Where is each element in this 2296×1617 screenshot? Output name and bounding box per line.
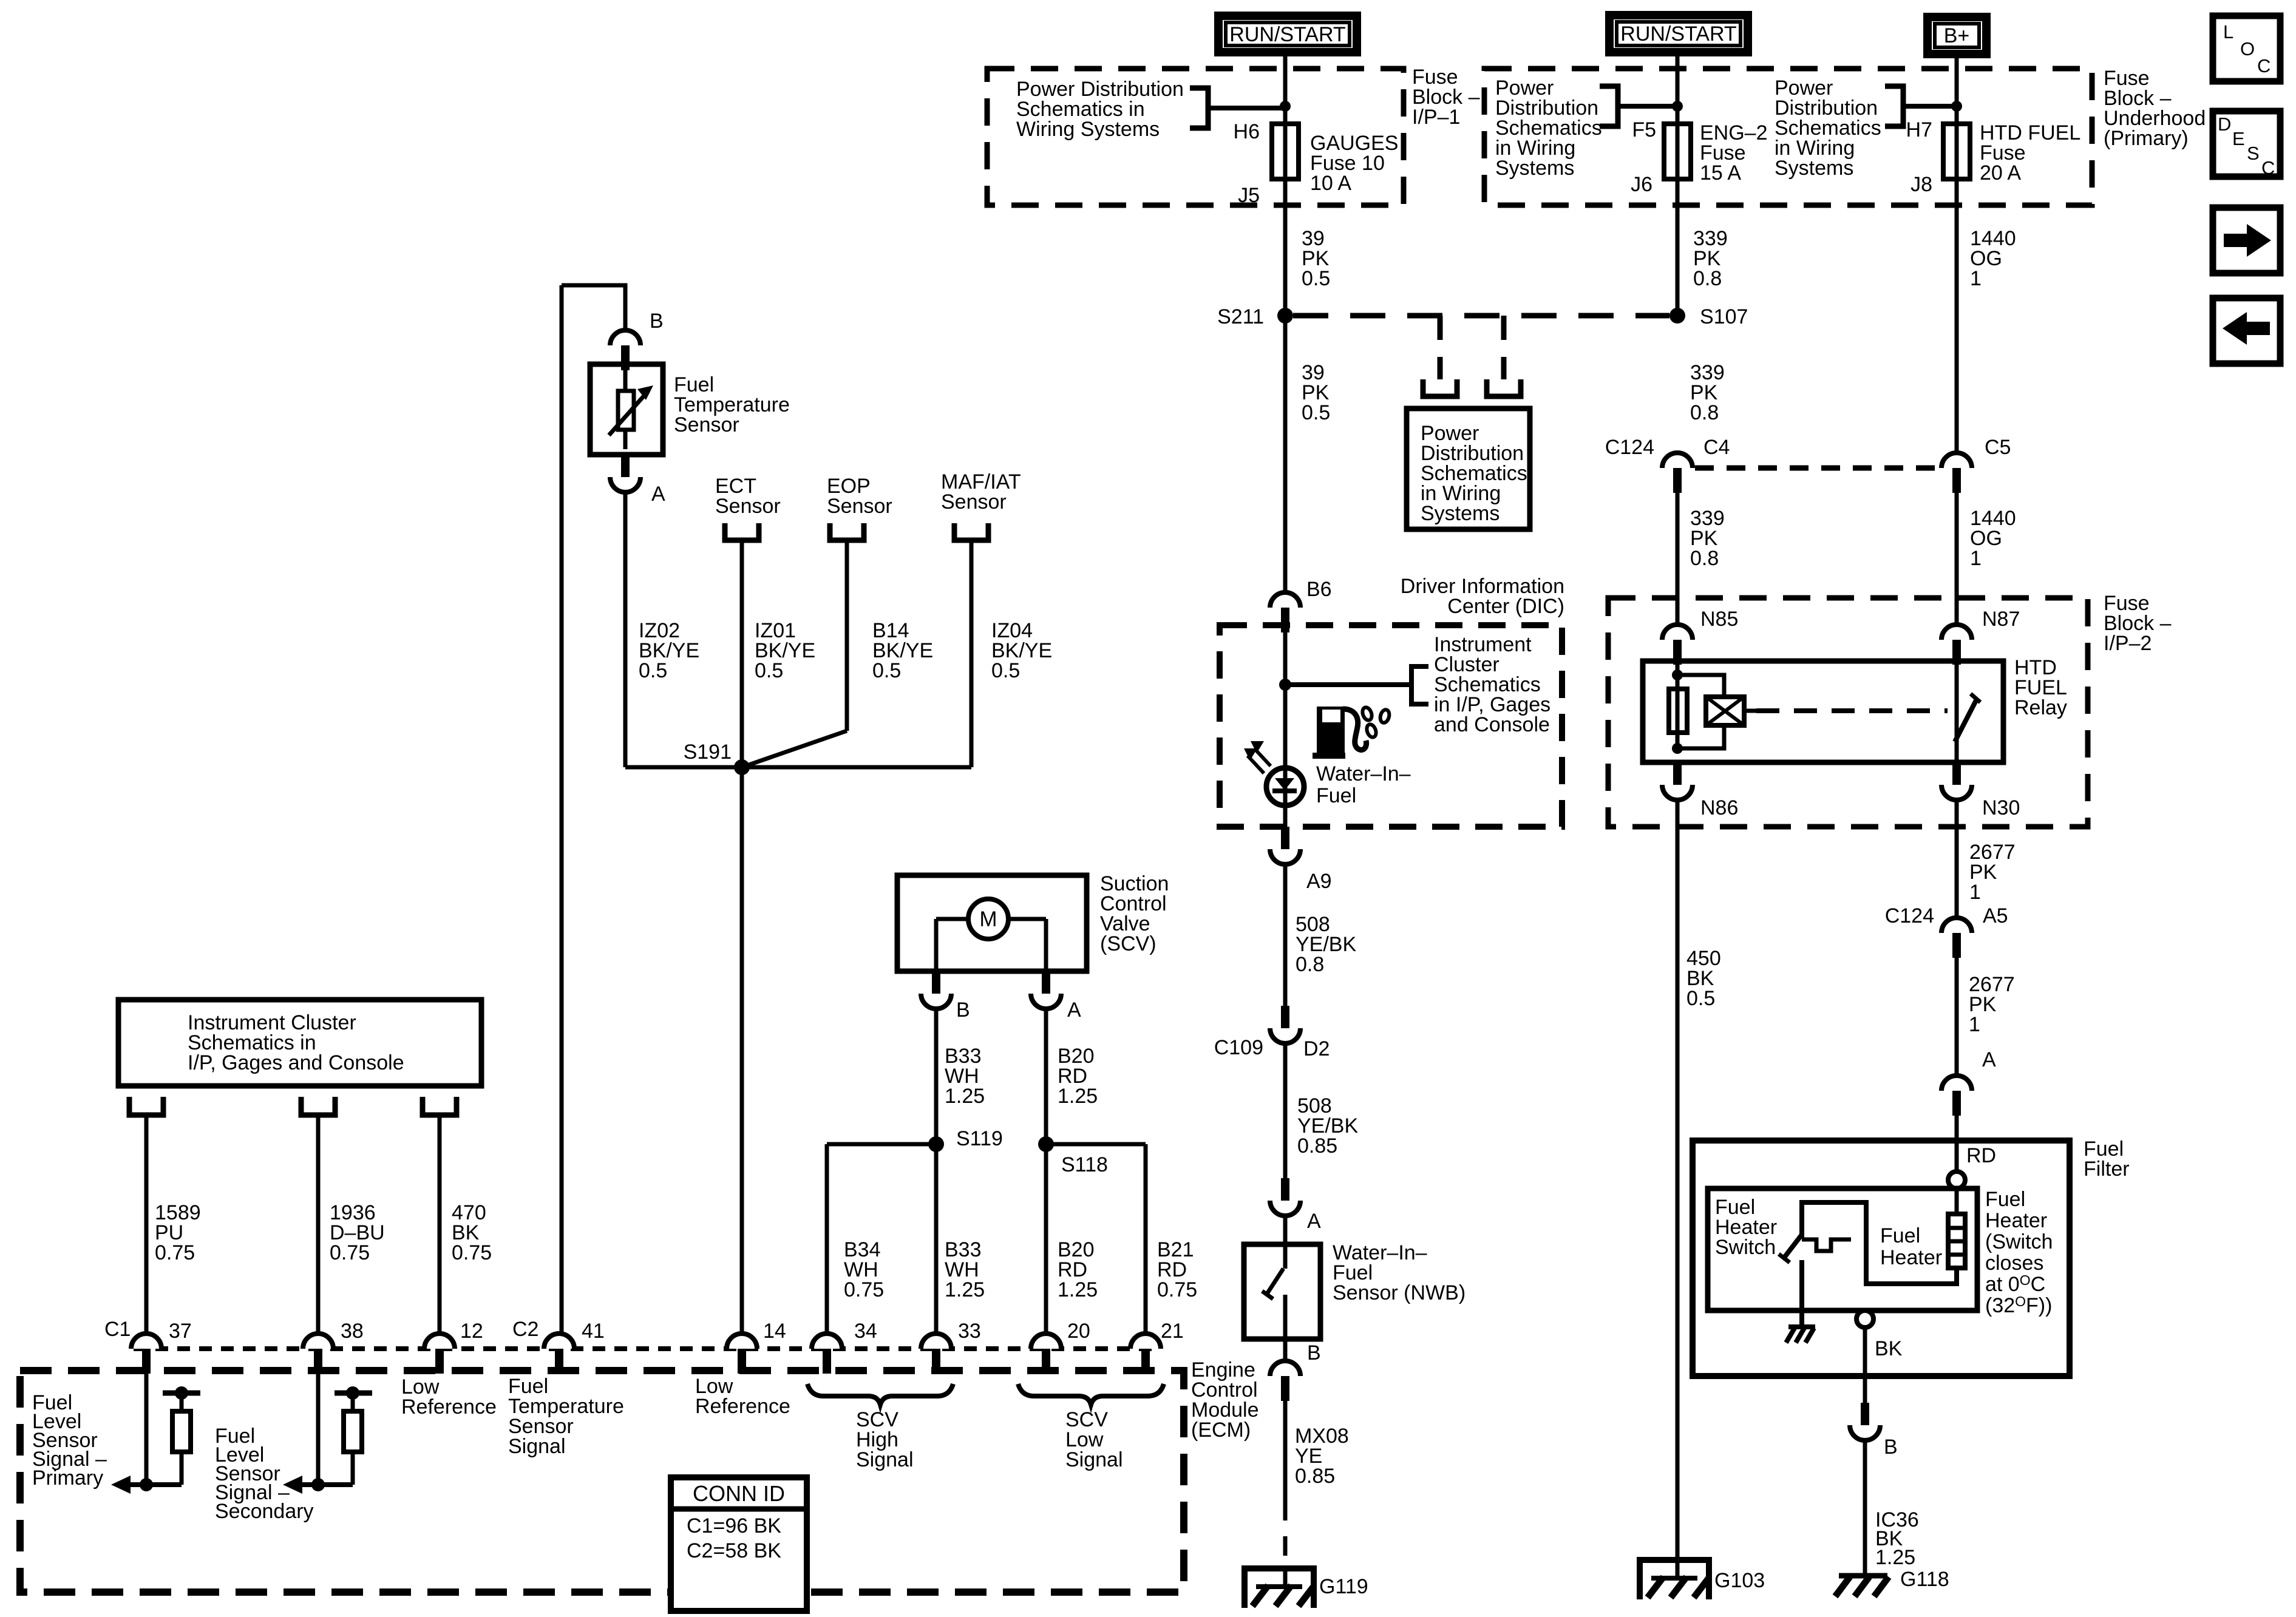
svg-text:closes: closes xyxy=(1985,1252,2043,1275)
svg-text:1.25: 1.25 xyxy=(1058,1085,1098,1108)
svg-text:0.75: 0.75 xyxy=(844,1278,884,1301)
svg-text:Water–In–: Water–In– xyxy=(1316,762,1411,785)
svg-text:L: L xyxy=(2223,21,2233,42)
svg-text:CONN ID: CONN ID xyxy=(693,1481,785,1506)
svg-text:B: B xyxy=(1884,1436,1898,1459)
svg-text:Reference: Reference xyxy=(401,1395,497,1419)
svg-text:Signal: Signal xyxy=(1065,1448,1123,1471)
svg-text:B: B xyxy=(956,998,970,1022)
svg-text:A: A xyxy=(1067,998,1081,1022)
svg-text:(Switch: (Switch xyxy=(1985,1230,2053,1253)
svg-text:Sensor: Sensor xyxy=(827,495,892,518)
svg-text:0.5: 0.5 xyxy=(1686,987,1715,1010)
svg-text:G119: G119 xyxy=(1319,1575,1368,1598)
svg-text:S191: S191 xyxy=(684,741,732,764)
svg-text:(SCV): (SCV) xyxy=(1100,932,1156,955)
svg-text:0.5: 0.5 xyxy=(755,659,783,682)
svg-text:S211: S211 xyxy=(1217,305,1264,328)
svg-text:Wiring Systems: Wiring Systems xyxy=(1016,118,1160,141)
svg-text:Sensor: Sensor xyxy=(941,490,1007,514)
svg-text:C109: C109 xyxy=(1214,1036,1263,1059)
svg-text:38: 38 xyxy=(341,1320,364,1343)
svg-text:and Console: and Console xyxy=(1434,713,1550,736)
svg-text:1.25: 1.25 xyxy=(945,1278,985,1301)
svg-text:RUN/START: RUN/START xyxy=(1229,23,1345,46)
svg-text:Primary: Primary xyxy=(32,1466,103,1490)
svg-text:B+: B+ xyxy=(1944,24,1970,47)
svg-text:C4: C4 xyxy=(1703,436,1730,459)
svg-text:41: 41 xyxy=(582,1320,605,1343)
svg-text:S119: S119 xyxy=(956,1127,1003,1150)
svg-text:Systems: Systems xyxy=(1775,157,1853,180)
svg-text:C1: C1 xyxy=(104,1318,131,1341)
svg-text:1: 1 xyxy=(1969,1013,1980,1036)
svg-text:C2: C2 xyxy=(512,1318,538,1341)
svg-text:F5: F5 xyxy=(1632,118,1656,141)
svg-text:Sensor: Sensor xyxy=(674,413,739,436)
svg-text:C124: C124 xyxy=(1885,904,1934,927)
svg-text:C5: C5 xyxy=(1985,436,2011,459)
svg-text:Center (DIC): Center (DIC) xyxy=(1447,595,1564,618)
svg-text:Systems: Systems xyxy=(1495,157,1574,180)
svg-text:Fuel: Fuel xyxy=(1316,784,1356,807)
svg-text:Relay: Relay xyxy=(2014,696,2067,719)
svg-text:I/P–1: I/P–1 xyxy=(1412,106,1460,129)
svg-text:0.85: 0.85 xyxy=(1297,1134,1337,1158)
svg-text:C1=96 BK: C1=96 BK xyxy=(687,1514,781,1537)
svg-text:H6: H6 xyxy=(1234,120,1260,143)
svg-text:10 A: 10 A xyxy=(1310,172,1351,195)
svg-text:Heater: Heater xyxy=(1880,1246,1942,1269)
svg-text:(Primary): (Primary) xyxy=(2104,127,2189,150)
svg-text:O: O xyxy=(2240,38,2255,59)
svg-text:N30: N30 xyxy=(1982,796,2020,819)
svg-text:34: 34 xyxy=(854,1320,877,1343)
svg-text:1.25: 1.25 xyxy=(945,1085,985,1108)
svg-text:0.75: 0.75 xyxy=(155,1241,195,1264)
svg-text:S107: S107 xyxy=(1700,305,1748,328)
svg-text:0.5: 0.5 xyxy=(639,659,667,682)
svg-text:A: A xyxy=(651,483,665,506)
svg-text:B: B xyxy=(1307,1341,1321,1364)
svg-text:Secondary: Secondary xyxy=(215,1500,314,1523)
svg-text:1: 1 xyxy=(1969,881,1981,904)
svg-text:20 A: 20 A xyxy=(1980,161,2021,185)
svg-text:C124: C124 xyxy=(1605,436,1654,459)
svg-text:E: E xyxy=(2232,128,2245,149)
svg-text:1: 1 xyxy=(1970,547,1982,570)
svg-text:at 0OC: at 0OC xyxy=(1985,1272,2045,1296)
svg-text:B6: B6 xyxy=(1306,578,1332,601)
svg-text:C: C xyxy=(2261,157,2275,178)
svg-text:1: 1 xyxy=(1970,267,1982,290)
svg-text:B: B xyxy=(650,310,664,333)
svg-text:M: M xyxy=(979,907,997,931)
svg-text:0.5: 0.5 xyxy=(1302,267,1330,290)
svg-text:15 A: 15 A xyxy=(1700,161,1741,185)
svg-text:RD: RD xyxy=(1966,1144,1996,1167)
svg-text:A: A xyxy=(1982,1048,1996,1071)
svg-text:Signal: Signal xyxy=(508,1435,566,1458)
svg-text:Systems: Systems xyxy=(1421,502,1500,525)
svg-text:Fuel: Fuel xyxy=(1880,1224,1920,1247)
svg-text:20: 20 xyxy=(1067,1320,1090,1343)
svg-text:14: 14 xyxy=(763,1320,786,1343)
svg-text:G103: G103 xyxy=(1714,1569,1765,1592)
svg-text:S: S xyxy=(2247,143,2260,164)
svg-text:0.85: 0.85 xyxy=(1295,1465,1335,1488)
svg-text:Sensor (NWB): Sensor (NWB) xyxy=(1333,1281,1466,1304)
svg-text:0.8: 0.8 xyxy=(1693,267,1722,290)
svg-text:33: 33 xyxy=(958,1320,981,1343)
svg-text:I/P–2: I/P–2 xyxy=(2104,632,2152,655)
svg-text:H7: H7 xyxy=(1906,118,1932,141)
svg-text:0.75: 0.75 xyxy=(330,1241,370,1264)
svg-text:A9: A9 xyxy=(1306,870,1332,893)
svg-text:0.5: 0.5 xyxy=(991,659,1020,682)
svg-text:0.5: 0.5 xyxy=(1302,401,1330,424)
svg-text:A: A xyxy=(1307,1210,1321,1233)
svg-text:G118: G118 xyxy=(1900,1568,1949,1591)
svg-text:1.25: 1.25 xyxy=(1058,1278,1098,1301)
svg-text:0.8: 0.8 xyxy=(1296,953,1324,976)
svg-text:1.25: 1.25 xyxy=(1875,1546,1915,1569)
svg-text:Switch: Switch xyxy=(1715,1236,1776,1259)
svg-text:N87: N87 xyxy=(1982,608,2020,631)
svg-text:Filter: Filter xyxy=(2084,1158,2130,1181)
svg-text:RUN/START: RUN/START xyxy=(1620,22,1736,46)
svg-text:C: C xyxy=(2257,55,2271,76)
svg-text:Reference: Reference xyxy=(695,1395,790,1418)
svg-text:0.75: 0.75 xyxy=(452,1241,492,1264)
svg-text:J5: J5 xyxy=(1238,184,1260,207)
svg-text:S118: S118 xyxy=(1061,1153,1108,1176)
svg-text:(ECM): (ECM) xyxy=(1191,1419,1251,1442)
svg-text:21: 21 xyxy=(1161,1320,1184,1343)
svg-text:I/P, Gages and Console: I/P, Gages and Console xyxy=(188,1051,404,1074)
svg-text:0.8: 0.8 xyxy=(1690,547,1719,570)
svg-text:A5: A5 xyxy=(1983,904,2008,927)
svg-text:0.8: 0.8 xyxy=(1690,401,1719,424)
svg-text:Fuel: Fuel xyxy=(1985,1188,2025,1211)
svg-text:J8: J8 xyxy=(1911,173,1932,196)
svg-text:Signal: Signal xyxy=(856,1448,914,1471)
svg-text:C2=58 BK: C2=58 BK xyxy=(687,1539,781,1562)
svg-text:(32OF)): (32OF)) xyxy=(1985,1293,2052,1317)
svg-text:J6: J6 xyxy=(1631,173,1652,196)
svg-text:12: 12 xyxy=(460,1320,483,1343)
svg-text:N86: N86 xyxy=(1700,796,1738,819)
svg-text:Heater: Heater xyxy=(1985,1209,2047,1232)
svg-text:Sensor: Sensor xyxy=(715,495,781,518)
svg-text:BK: BK xyxy=(1875,1337,1903,1360)
svg-text:N85: N85 xyxy=(1700,608,1738,631)
svg-text:0.75: 0.75 xyxy=(1157,1278,1197,1301)
svg-text:D: D xyxy=(2218,114,2231,135)
svg-text:0.5: 0.5 xyxy=(872,659,901,682)
svg-text:D2: D2 xyxy=(1303,1037,1330,1060)
svg-text:37: 37 xyxy=(169,1320,192,1343)
